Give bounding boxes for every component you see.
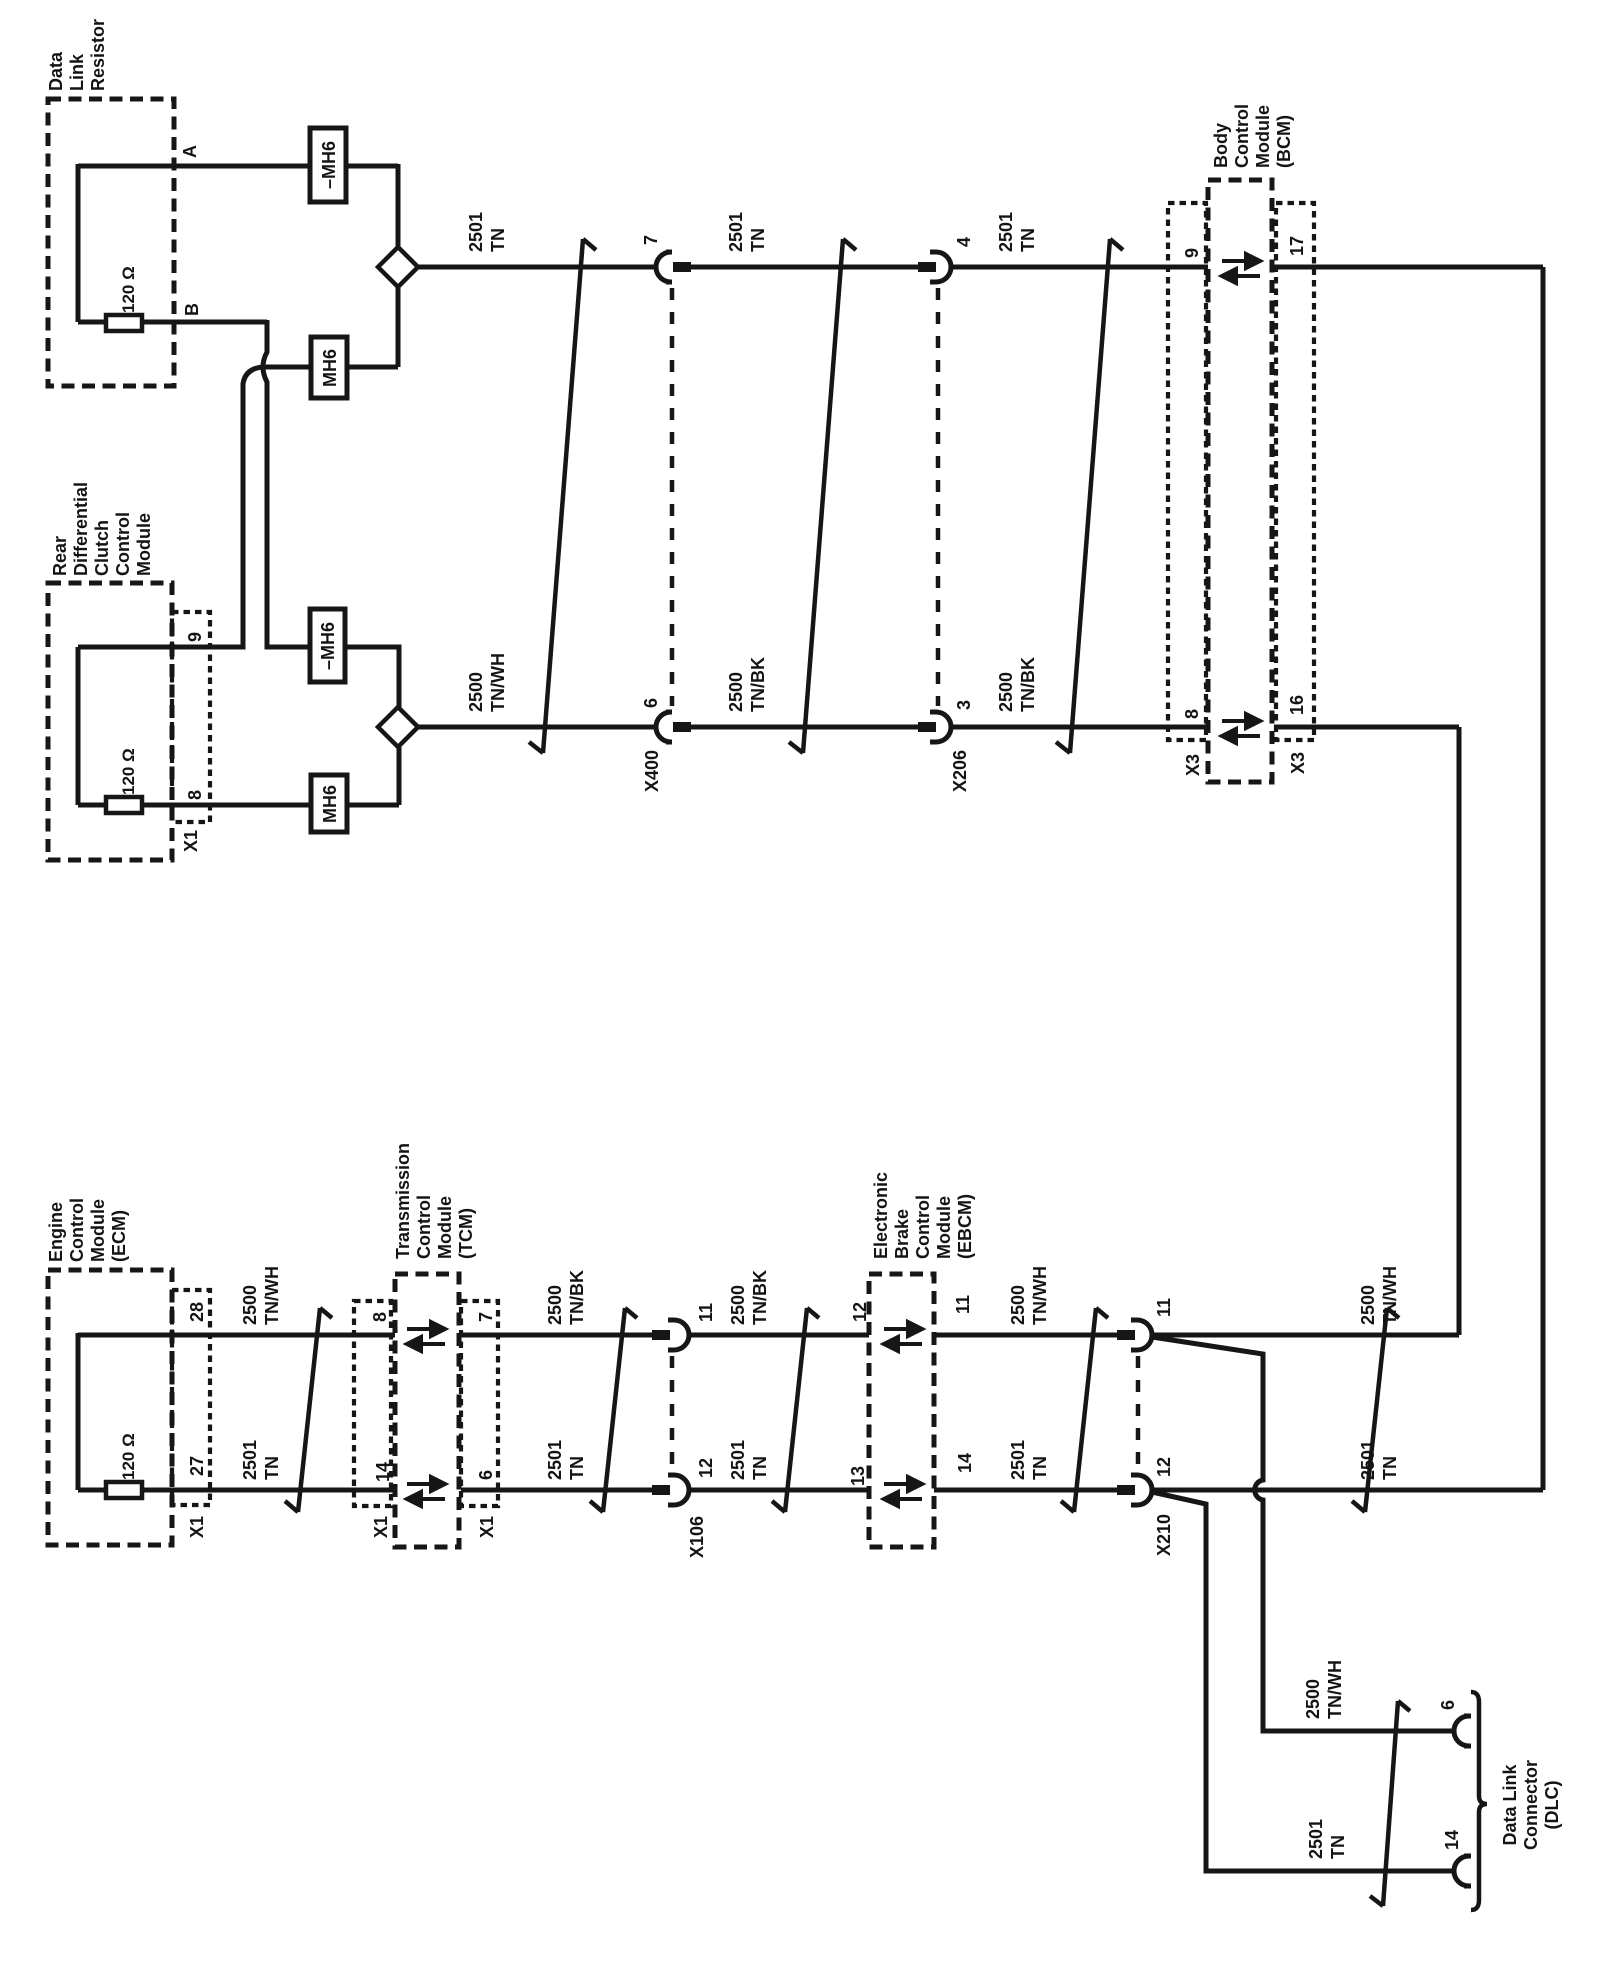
svg-text:12: 12	[696, 1458, 716, 1478]
svg-text:–MH6: –MH6	[319, 141, 339, 189]
svg-text:120 Ω: 120 Ω	[119, 748, 138, 795]
svg-text:120 Ω: 120 Ω	[119, 1433, 138, 1480]
svg-text:X206: X206	[950, 750, 970, 792]
svg-text:8: 8	[185, 790, 205, 800]
svg-text:28: 28	[187, 1302, 207, 1322]
svg-text:A: A	[180, 145, 200, 158]
svg-text:MH6: MH6	[320, 349, 340, 387]
svg-text:X1: X1	[187, 1516, 207, 1538]
svg-text:12: 12	[1154, 1457, 1174, 1477]
svg-text:7: 7	[476, 1312, 496, 1322]
svg-text:11: 11	[1154, 1298, 1174, 1317]
svg-text:14: 14	[1442, 1830, 1462, 1850]
svg-text:X3: X3	[1183, 754, 1203, 776]
svg-text:120 Ω: 120 Ω	[119, 266, 138, 313]
svg-text:13: 13	[848, 1466, 868, 1486]
svg-text:6: 6	[641, 698, 661, 708]
svg-text:7: 7	[641, 235, 661, 245]
svg-text:–MH6: –MH6	[318, 622, 338, 670]
svg-text:X3: X3	[1288, 752, 1308, 774]
svg-text:4: 4	[954, 237, 974, 247]
svg-text:X400: X400	[642, 750, 662, 792]
svg-text:MH6: MH6	[320, 785, 340, 823]
svg-text:11: 11	[953, 1295, 973, 1314]
svg-text:9: 9	[1182, 248, 1202, 258]
svg-text:3: 3	[954, 700, 974, 710]
svg-text:9: 9	[185, 632, 205, 642]
svg-text:6: 6	[1438, 1700, 1458, 1710]
svg-text:X1: X1	[371, 1516, 391, 1538]
svg-text:14: 14	[373, 1462, 393, 1482]
svg-text:11: 11	[696, 1303, 716, 1322]
svg-text:6: 6	[476, 1470, 496, 1480]
svg-text:X1: X1	[477, 1516, 497, 1538]
svg-text:X1: X1	[181, 830, 201, 852]
svg-text:8: 8	[1182, 709, 1202, 719]
svg-text:B: B	[182, 303, 202, 316]
svg-text:14: 14	[955, 1453, 975, 1473]
svg-text:X106: X106	[687, 1516, 707, 1558]
svg-text:17: 17	[1287, 236, 1307, 256]
svg-text:8: 8	[370, 1312, 390, 1322]
svg-text:X210: X210	[1154, 1514, 1174, 1556]
svg-text:12: 12	[850, 1302, 870, 1322]
svg-text:16: 16	[1287, 695, 1307, 715]
svg-text:27: 27	[187, 1456, 207, 1476]
